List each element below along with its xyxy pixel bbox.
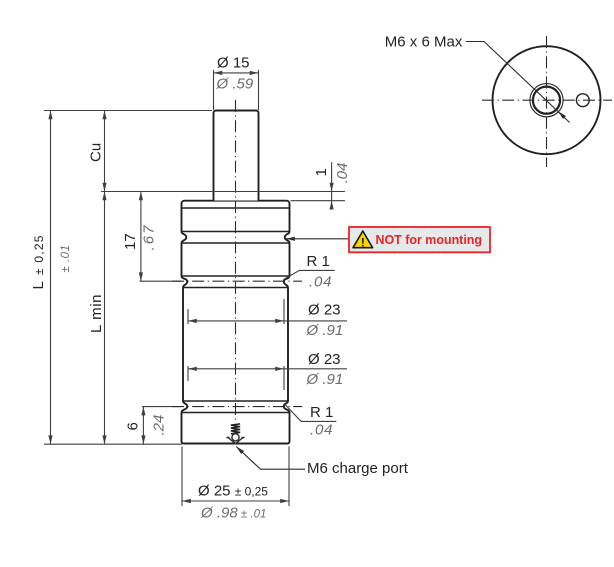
- dim 6: [141, 407, 145, 445]
- lower R1 groove bottom line: [182, 412, 289, 414]
- svg-text:R 1: R 1: [310, 404, 333, 421]
- mounting groove bottom line: [182, 242, 289, 244]
- piston rod: [214, 111, 259, 201]
- warning label box: [349, 227, 490, 252]
- svg-text:NOT for mounting: NOT for mounting: [376, 232, 483, 247]
- tapped hole circle: [533, 87, 560, 114]
- svg-text:Ø 23: Ø 23: [308, 351, 341, 368]
- svg-text:.24: .24: [151, 415, 168, 436]
- thread circle: [530, 84, 563, 117]
- end view horizontal centerline: [482, 99, 612, 101]
- dim Cu: [102, 111, 106, 192]
- vertical centerline side view: [235, 100, 237, 421]
- svg-text:.04: .04: [334, 163, 351, 184]
- collar step line: [182, 207, 289, 209]
- extension line bottom: [44, 443, 182, 445]
- charge valve symbol: [227, 424, 245, 444]
- extension line rod top: [44, 110, 212, 112]
- lower groove centerline: [142, 406, 302, 408]
- dim 17: [139, 192, 143, 282]
- svg-text:Ø 25 ± 0,25: Ø 25 ± 0,25: [198, 482, 268, 499]
- dim L min: [102, 192, 106, 445]
- warning leader: [286, 237, 349, 241]
- leader M6 charge port: [235, 445, 305, 469]
- extension line collar top right: [291, 200, 346, 202]
- dim Ø23 first: [188, 299, 347, 324]
- svg-text:17: 17: [122, 233, 139, 250]
- svg-text:Ø .91: Ø .91: [306, 371, 344, 388]
- svg-text:M6 charge port: M6 charge port: [307, 460, 409, 477]
- svg-text:L min: L min: [88, 295, 105, 334]
- svg-text:.04: .04: [309, 274, 332, 291]
- svg-text:Ø .59: Ø .59: [216, 76, 254, 93]
- charge port hole: [576, 94, 589, 107]
- end view body circle: [493, 46, 601, 154]
- dim L: [48, 111, 52, 445]
- leader R1 upper: [284, 270, 335, 279]
- dim Ø23 second: [188, 366, 347, 390]
- svg-text:Ø 23: Ø 23: [308, 302, 341, 319]
- leader M6 x 6 Max: [466, 42, 570, 123]
- upper R1 groove bottom line: [184, 287, 288, 289]
- svg-text:M6 x 6 Max: M6 x 6 Max: [385, 34, 463, 51]
- svg-text:Ø 15: Ø 15: [217, 55, 250, 72]
- svg-text:Cu: Cu: [88, 143, 105, 162]
- leader R1 lower: [284, 404, 336, 422]
- upper groove centerline: [140, 280, 303, 282]
- dim Ø15: [214, 70, 259, 110]
- upper R1 groove top line: [182, 275, 289, 277]
- svg-text:6: 6: [125, 422, 142, 430]
- lower R1 groove top line: [184, 400, 288, 402]
- dim Ø25: [182, 447, 289, 507]
- svg-text:R 1: R 1: [307, 253, 330, 270]
- extension line collar reference: [101, 191, 345, 193]
- svg-text:1: 1: [313, 168, 330, 176]
- body outline: [182, 201, 290, 444]
- end view vertical centerline: [546, 36, 548, 167]
- svg-text:.67: .67: [141, 225, 158, 251]
- dim 1: [330, 162, 334, 209]
- mounting groove top line: [182, 231, 289, 233]
- svg-text:.04: .04: [310, 422, 333, 439]
- svg-text:± .01: ± .01: [60, 245, 72, 273]
- svg-text:Ø .91: Ø .91: [306, 322, 344, 339]
- svg-text:!: !: [361, 235, 365, 249]
